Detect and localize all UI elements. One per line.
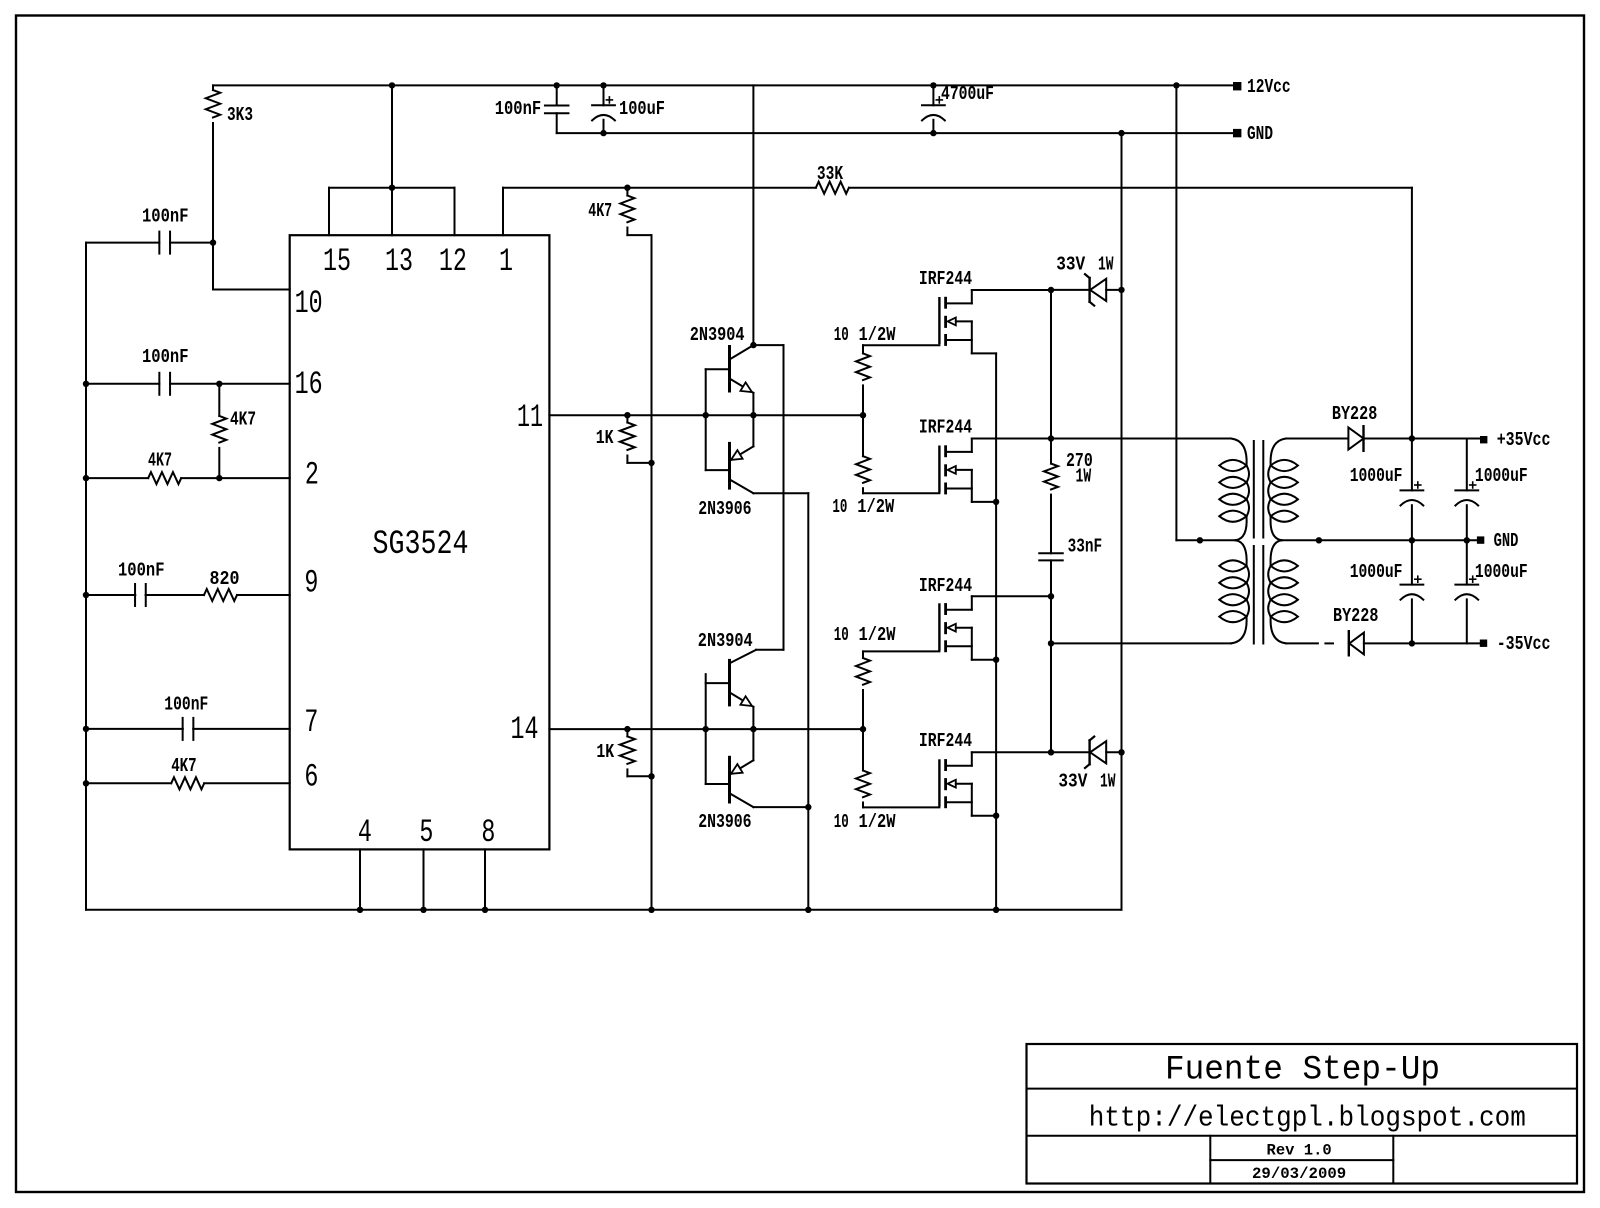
wire Q7 drain rail: [972, 595, 1051, 597]
svg-text:2: 2: [305, 457, 319, 494]
junction +35V/filter: [1409, 435, 1415, 441]
svg-text:IRF244: IRF244: [919, 730, 972, 752]
diode BY228 (positive rectifier): [1348, 428, 1363, 450]
svg-text:1W: 1W: [1100, 770, 1116, 792]
svg-text:IRF244: IRF244: [919, 575, 972, 597]
junction left-rail/pin9: [83, 592, 89, 598]
svg-text:10: 10: [834, 811, 849, 833]
svg-text:29/03/2009: 29/03/2009: [1252, 1165, 1346, 1183]
capacitor 100nF (pin7): [182, 718, 184, 740]
junction bus/pin8: [482, 907, 488, 913]
diode zener 33V 1W (lower clamp): [1051, 751, 1090, 753]
junction lower PNP collector: [805, 804, 811, 810]
junction base/pin14: [703, 726, 709, 732]
svg-text:4K7: 4K7: [588, 200, 612, 222]
wire Q5 drain rail: [972, 289, 1051, 291]
svg-text:4K7: 4K7: [171, 755, 197, 777]
capacitor 100nF (pin16): [158, 373, 160, 395]
resistor 270 1W (snubber): [1050, 439, 1052, 464]
resistor 820 (pin9): [204, 589, 237, 601]
svg-text:33V: 33V: [1056, 254, 1085, 276]
svg-text:GND: GND: [1494, 530, 1519, 552]
junction Q6 source: [993, 499, 999, 505]
junction pin1/4K7/33K: [624, 185, 630, 191]
junction primary-return tap: [1048, 640, 1054, 646]
capacitor 100nF (12V decoupling): [556, 85, 558, 105]
junction Q5/Q6 drains: [1048, 287, 1054, 293]
wire pin 11 row: [549, 414, 863, 416]
wire secondary center tap to GND: [1282, 539, 1477, 541]
pin 1 stub: [502, 188, 504, 236]
svg-text:2N3904: 2N3904: [690, 324, 745, 346]
svg-text:6: 6: [304, 759, 318, 796]
capacitor 1000uF (pos filter right): [1466, 439, 1468, 491]
transistor Q2 2N3906 (upper driver): [752, 415, 754, 446]
junction base/pin11: [703, 412, 709, 418]
IC U1 SG3524 body: [290, 235, 550, 849]
svg-text:4K7: 4K7: [148, 450, 172, 472]
resistor 1K (pin14): [626, 729, 628, 736]
junction 1K/ground-column: [648, 460, 654, 466]
junction pin11/1K: [624, 412, 630, 418]
transistor Q1 2N3904 (upper driver): [730, 345, 754, 359]
svg-text:13: 13: [385, 243, 413, 280]
svg-text:100nF: 100nF: [164, 694, 208, 716]
svg-text:1/2W: 1/2W: [857, 496, 894, 518]
svg-text:2N3906: 2N3906: [698, 811, 751, 833]
svg-text:1/2W: 1/2W: [859, 624, 896, 646]
junction left-rail/pin7: [83, 726, 89, 732]
terminal GND (top): [1233, 129, 1241, 137]
svg-text:4: 4: [358, 814, 372, 851]
wire Q1 gate lead: [863, 344, 939, 346]
svg-text:2N3906: 2N3906: [698, 498, 751, 520]
junction pin13/bracket: [389, 185, 395, 191]
svg-text:1/2W: 1/2W: [859, 811, 896, 833]
junction GND/filter-right: [1464, 537, 1470, 543]
transistor Q6 IRF244 (upper B): [938, 447, 940, 492]
svg-text:-35Vcc: -35Vcc: [1497, 633, 1551, 655]
junction Q7 drain: [1048, 593, 1054, 599]
transistor Q5 IRF244 (upper A): [938, 298, 940, 343]
svg-text:2N3904: 2N3904: [698, 630, 753, 652]
svg-text:IRF244: IRF244: [919, 268, 972, 290]
wire Q3 gate lead: [863, 650, 939, 652]
svg-text:11: 11: [517, 399, 543, 436]
svg-text:5: 5: [419, 814, 433, 851]
wire secondary bottom to -35V: [1286, 642, 1318, 644]
pin 8 stub: [484, 849, 486, 909]
wire driver base column (upper): [705, 369, 707, 470]
svg-text:BY228: BY228: [1333, 605, 1378, 627]
svg-text:1000uF: 1000uF: [1350, 465, 1403, 487]
resistor 1K (pin11): [626, 415, 628, 422]
pin 5 stub: [423, 849, 425, 909]
svg-text:3K3: 3K3: [227, 104, 253, 126]
wire primary return to drain column: [1051, 642, 1231, 644]
transformer T1 primary winding: [1231, 439, 1247, 466]
svg-text:http://electgpl.blogspot.com: http://electgpl.blogspot.com: [1089, 1102, 1526, 1135]
resistor 4K7 (pin2): [148, 472, 181, 484]
wire pin 9 row: [86, 594, 135, 596]
svg-text:8: 8: [481, 814, 495, 851]
junction Q8 source: [993, 813, 999, 819]
junction bus/collector-column: [805, 907, 811, 913]
svg-text:33nF: 33nF: [1068, 536, 1103, 558]
wire GND top rail: [557, 132, 1233, 134]
junction left-rail/pin16: [83, 381, 89, 387]
wire pin 16 row: [86, 383, 159, 385]
junction Q8 drain: [1048, 749, 1054, 755]
junction secondary tap: [1316, 537, 1322, 543]
junction left-rail/pin6: [83, 780, 89, 786]
junction gate-divider/pin11: [860, 412, 866, 418]
svg-text:10: 10: [832, 496, 847, 518]
wire Q8 drain rail: [972, 751, 1051, 753]
svg-text:820: 820: [210, 568, 240, 590]
svg-text:33K: 33K: [817, 163, 844, 185]
wire left rail: [85, 243, 87, 910]
wire GND column x=1121: [1121, 133, 1123, 910]
diode BY228 (negative rectifier): [1348, 631, 1350, 655]
wire 12V drop to drivers: [752, 85, 754, 345]
wire pin 2 row: [86, 477, 148, 479]
junction collector/12V: [750, 342, 756, 348]
capacitor 4700uF (12V bulk): [932, 85, 934, 105]
junction 1K/ground-column (lower): [648, 773, 654, 779]
junction bus/pin4: [357, 907, 363, 913]
wire collector jog to lower NPN: [753, 344, 783, 346]
junction bus/source-column: [993, 907, 999, 913]
terminal GND (output): [1477, 536, 1484, 543]
svg-text:BY228: BY228: [1332, 403, 1377, 425]
svg-text:1K: 1K: [596, 427, 614, 449]
junction dots on GND rail: [600, 130, 606, 136]
junction left-rail/pin2: [83, 475, 89, 481]
svg-text:15: 15: [323, 243, 351, 280]
svg-text:10: 10: [834, 324, 849, 346]
svg-text:100uF: 100uF: [619, 98, 665, 120]
pin 15 stub: [328, 188, 330, 236]
wire driver base column (lower): [705, 674, 707, 784]
wire drain column x=1051 (upper): [1050, 290, 1052, 439]
svg-text:14: 14: [511, 711, 539, 748]
svg-text:12: 12: [439, 243, 467, 280]
title block frame: [1027, 1044, 1578, 1184]
svg-text:GND: GND: [1247, 123, 1273, 145]
svg-text:IRF244: IRF244: [919, 417, 972, 439]
capacitor 33nF (snubber): [1039, 552, 1063, 554]
terminal +35Vcc: [1480, 436, 1487, 443]
pin 13 stub: [391, 85, 393, 235]
junction emitters/pin11: [750, 412, 756, 418]
capacitor 1000uF (neg filter right): [1466, 540, 1468, 584]
junction emitters/pin14: [750, 726, 756, 732]
junction pin14/1K: [624, 726, 630, 732]
wire bracket pins 15-13-12: [329, 187, 455, 189]
wire pin 10 row: [86, 242, 159, 244]
pin 4 stub: [359, 849, 361, 909]
svg-text:100nF: 100nF: [118, 560, 165, 582]
svg-text:7: 7: [304, 704, 318, 741]
svg-text:33V: 33V: [1058, 770, 1087, 792]
svg-text:1: 1: [499, 243, 513, 280]
svg-text:1000uF: 1000uF: [1350, 561, 1403, 583]
svg-text:1W: 1W: [1098, 254, 1114, 276]
svg-text:4700uF: 4700uF: [941, 83, 994, 105]
wire pin 6 row: [86, 782, 171, 784]
svg-text:10: 10: [834, 624, 849, 646]
terminal 12Vcc: [1233, 82, 1241, 90]
wire 12V top rail: [213, 84, 1233, 86]
resistor 10 1/2W (Q3 gate): [862, 651, 864, 658]
terminal -35Vcc: [1480, 640, 1487, 647]
resistor 4K7 (pin1 to ground): [626, 188, 628, 196]
resistor 4K7 (pin16-pin2): [218, 384, 220, 416]
svg-text:12Vcc: 12Vcc: [1247, 76, 1291, 98]
junction pin2/4K7: [216, 475, 222, 481]
wire secondary top to +35V: [1286, 438, 1348, 440]
junction Q7 source: [993, 657, 999, 663]
svg-text:100nF: 100nF: [495, 98, 542, 120]
wire PNP collector column x=808: [807, 493, 809, 910]
svg-text:9: 9: [304, 565, 318, 602]
wire pin 1 to 33K/4K7: [503, 187, 627, 189]
capacitor 100uF (12V bulk): [603, 85, 605, 105]
wire source column x=996: [995, 353, 997, 909]
svg-text:+35Vcc: +35Vcc: [1497, 429, 1551, 451]
junction gate-divider/pin14: [860, 726, 866, 732]
resistor 10 1/2W (Q4 gate): [862, 729, 864, 770]
junction dots on 12V rail: [389, 82, 395, 88]
diode zener 33V 1W (upper clamp): [1051, 289, 1090, 291]
resistor 10 1/2W (Q2 gate): [862, 415, 864, 456]
capacitor 100nF (pin10 osc): [158, 232, 160, 254]
transformer T1 secondary winding: [1271, 439, 1287, 466]
resistor 3K3: [212, 85, 214, 90]
svg-text:1/2W: 1/2W: [859, 324, 896, 346]
svg-text:1W: 1W: [1076, 466, 1092, 488]
wire feedback drop to +35V: [1411, 188, 1413, 439]
junction -35V/filter: [1409, 640, 1415, 646]
junction GND/filter-left: [1409, 537, 1415, 543]
transistor Q4 2N3906 (lower driver): [752, 729, 754, 760]
junction pin16/4K7: [216, 381, 222, 387]
pin 12 stub: [454, 188, 456, 236]
svg-text:16: 16: [295, 366, 323, 403]
svg-text:100nF: 100nF: [142, 206, 189, 228]
resistor 33K (feedback): [627, 187, 816, 189]
transistor Q7 IRF244 (lower A): [938, 605, 940, 650]
capacitor 1000uF (neg filter left): [1411, 540, 1413, 584]
junction bus/ground-column: [648, 907, 654, 913]
wire drain column x=1051 (lower): [1050, 596, 1052, 752]
junction primary center tap: [1197, 537, 1203, 543]
wire pin 14 row: [549, 728, 863, 730]
svg-text:10: 10: [295, 285, 323, 322]
junction zener/GND column (lower): [1118, 749, 1124, 755]
svg-text:1K: 1K: [596, 741, 614, 763]
transistor Q3 2N3904 (lower driver): [756, 649, 784, 651]
junction bus/pin5: [420, 907, 426, 913]
svg-text:4K7: 4K7: [230, 409, 256, 431]
svg-text:Fuente Step-Up: Fuente Step-Up: [1165, 1052, 1440, 1090]
transistor Q8 IRF244 (lower B): [938, 761, 940, 806]
junction zener/GND column (upper): [1118, 287, 1124, 293]
wire pin 7 row: [86, 728, 183, 730]
resistor 10 1/2W (Q1 gate): [862, 345, 864, 353]
junction 3K3/100nF/pin10: [210, 239, 216, 245]
svg-text:Rev 1.0: Rev 1.0: [1267, 1142, 1332, 1160]
resistor 4K7 (pin6): [171, 777, 204, 789]
capacitor 1000uF (pos filter left): [1411, 439, 1413, 491]
capacitor 100nF (pin9): [134, 584, 136, 606]
svg-text:1000uF: 1000uF: [1475, 465, 1528, 487]
svg-text:100nF: 100nF: [142, 346, 189, 368]
wire ground column x=651: [651, 235, 653, 910]
transformer T1 core: [1253, 441, 1255, 538]
svg-text:SG3524: SG3524: [373, 526, 469, 564]
wire ground bus: [86, 909, 1122, 911]
wire 12V feed to primary center tap: [1175, 85, 1177, 540]
svg-text:1000uF: 1000uF: [1475, 561, 1528, 583]
wire Q6 drain rail to transformer: [972, 438, 1231, 440]
